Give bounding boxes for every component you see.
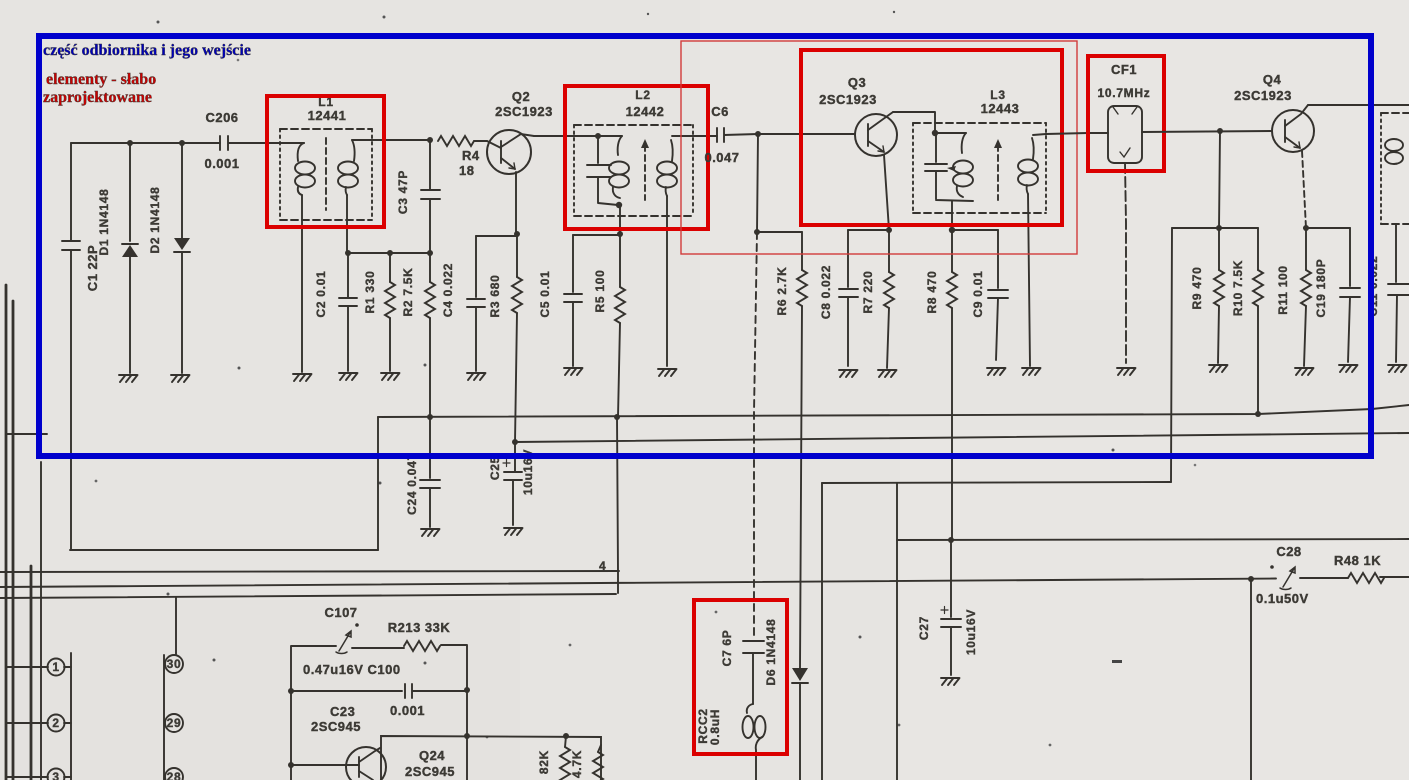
capacitor C3 47P [396,140,440,253]
capacitor C24 0.047 [405,417,440,527]
capacitor C1 22P (series in left branch) [62,143,100,550]
svg-text:C23: C23 [330,704,355,719]
svg-text:0.1u50V: 0.1u50V [1256,591,1309,606]
transformer L3 12443 [913,88,1046,366]
capacitor C6 0.047 (series) [704,104,758,165]
highlight box around L2 [565,86,708,229]
transformer (edge, partial) [1381,113,1409,282]
transistor Q4 2SC1923 [1234,72,1314,228]
svg-text:2SC1923: 2SC1923 [819,92,877,107]
wire: Q4 collector out [1308,104,1409,106]
svg-text:C28: C28 [1276,544,1301,559]
transistor Q23 2SC945 [291,747,455,780]
svg-text:3: 3 [52,770,59,780]
highlight box around L1 [267,96,384,227]
connector pin 1 [7,659,71,676]
svg-text:R2 7.5K: R2 7.5K [401,268,415,317]
svg-text:2SC945: 2SC945 [405,764,455,779]
node: bus A / C24 [427,414,433,420]
node: rail/R82K [563,733,569,739]
node: Q3 emitter rail [886,227,892,233]
svg-text:28: 28 [167,770,182,780]
ground (L1 primary) [293,374,312,381]
svg-text:elementy - słabo: elementy - słabo [46,71,156,88]
svg-text:R3 680: R3 680 [488,275,502,318]
svg-text:część odbiornika i jego wejści: część odbiornika i jego wejście [43,42,251,59]
ground (CF1) [1117,368,1136,375]
ground (C19) [1339,365,1358,372]
node: Q4 emitter rail [1303,225,1309,231]
svg-text:Q2: Q2 [512,89,530,104]
capacitor C25 10u16V (electrolytic) [488,442,535,525]
node: CF1/Q4 junction [1217,128,1223,134]
ground (C4) [467,373,486,380]
connector pin 28 [165,768,183,780]
svg-text:R1 330: R1 330 [363,271,377,314]
ceramic filter CF1 10.7MHz [1098,62,1151,363]
svg-text:D1 1N4148: D1 1N4148 [97,188,111,255]
wire: below-frame vertical [40,462,42,780]
svg-text:4: 4 [599,559,606,573]
svg-text:R213 33K: R213 33K [388,620,451,635]
svg-text:0.8uH: 0.8uH [708,709,722,745]
svg-text:18: 18 [459,163,474,178]
node: rail/C100 [464,733,470,739]
resistor R8 470 (to lower section) [925,230,957,540]
svg-text:R48 1K: R48 1K [1334,553,1381,568]
node: bus A / R5 [614,414,620,420]
svg-text:1: 1 [52,660,59,674]
ground (L3 secondary) [1022,368,1041,375]
capacitor C11 0.022 [1366,255,1409,362]
svg-text:R4: R4 [462,148,480,163]
wire: junction down [1250,579,1252,780]
svg-text:CF1: CF1 [1111,62,1137,77]
resistor R7 220 [861,230,894,368]
ground (R11) [1295,368,1314,375]
wire: R5 riser to bottom [617,417,618,593]
wire: left margin lines [6,285,31,780]
resistor R6 2.7K [775,232,807,668]
resistor R5 100 (to bus) [593,234,625,417]
ground (R9) [1209,365,1228,372]
connector pin 2 [7,715,71,732]
wire: Q2 collector to L2 [534,135,565,137]
wire: dashed feed down to C7 [754,232,757,639]
node: D2 tap [179,140,185,146]
coil RCC2 [696,704,766,780]
svg-text:C7 6P: C7 6P [720,630,734,667]
svg-text:0.001: 0.001 [390,703,425,718]
resistor R10 7.5K (to bus) [1231,228,1263,414]
resistor 4.7K [570,745,603,780]
wire: AGC rail under L1 [347,252,430,254]
wire: C4 rail [476,235,517,237]
capacitor C9 0.01 [971,230,1008,360]
svg-text:0.001: 0.001 [204,156,239,171]
node: L2 internal bottom [616,202,622,208]
svg-text:C24 0.047: C24 0.047 [405,453,419,515]
svg-text:0.047: 0.047 [704,150,739,165]
wire: connector box [71,653,164,780]
wire: stub at left [6,433,47,435]
ground (C9) [987,368,1006,375]
wire: L3 red box to CF1 [1088,132,1108,134]
node: bias rail junction [754,229,760,235]
wire: R11/C19 rail [1304,227,1350,229]
svg-text:C3 47P: C3 47P [396,170,410,214]
svg-text:Q3: Q3 [848,75,866,90]
wire: junction down to bias rail [757,134,758,232]
node: L2 top entry [595,133,601,139]
transformer L1 12441 [267,95,430,372]
wire: rail to R6 [757,231,802,233]
node: L3 bottom rail junction [949,227,955,233]
connector pin 29 [165,714,183,732]
node: R9 rail junction [1216,225,1222,231]
ground (C5) [564,368,583,375]
wire: C107 bias box [291,645,467,780]
ground (R7) [878,370,897,377]
resistor R213 33K [388,620,451,651]
diode D2 1N4148 [148,143,190,373]
ground (C27) [941,678,960,685]
wire: Q3 collector loop to L3 [893,112,935,133]
wire: bus A riser [377,417,379,550]
ground (L2 secondary) [658,369,677,376]
node: L3 primary top [932,130,938,136]
wire: rail left corner down [1171,228,1172,482]
svg-text:R10 7.5K: R10 7.5K [1231,260,1245,316]
node: bus B / C25 [512,439,518,445]
resistor R9 470 [1190,228,1224,363]
node: Q23 base rail [288,762,294,768]
node: L1/R4/C3 junction [427,137,433,143]
node: Q2 emitter / C4 rail [514,231,520,237]
svg-text:2: 2 [52,716,59,730]
svg-text:zaprojektowane: zaprojektowane [43,89,152,106]
svg-text:C4 0.022: C4 0.022 [441,263,455,317]
ground (D1) [119,375,138,382]
wire: bottom rail 3 (stub) [0,594,616,598]
wire: circle-30 riser [175,597,177,654]
svg-text:C107: C107 [324,605,357,620]
svg-text:C6: C6 [711,104,729,119]
capacitor C4 0.022 [441,236,485,371]
svg-text:10u16V: 10u16V [964,609,978,655]
svg-text:2SC945: 2SC945 [311,719,361,734]
frame: blue outline [39,36,1371,456]
svg-text:C206: C206 [205,110,238,125]
wire: horizontal y483 [822,482,1171,483]
highlight box around CF1 [1088,56,1164,171]
svg-text:2SC1923: 2SC1923 [495,104,553,119]
capacitor C7 6P [720,630,764,704]
svg-text:Q24: Q24 [419,748,445,763]
wire: left return loop [70,549,378,551]
capacitor C27 10u16V (electrolytic) [917,540,978,675]
ground (C25) [504,528,523,535]
ground (C11) [1388,365,1407,372]
svg-text:C9 0.01: C9 0.01 [971,271,985,318]
svg-text:12442: 12442 [626,104,665,119]
node: C6 / Q3 base junction [755,131,761,137]
node: D1 tap [127,140,133,146]
wire: vertical x897 [896,483,898,780]
resistor R2 7.5K (to AGC bus) [401,253,435,417]
svg-text:29: 29 [167,716,182,730]
wire: R9/R10 rail [1172,227,1258,229]
thin red box around IF stage [681,41,1077,254]
resistor 82K [537,736,570,780]
capacitor C206 0.001 (series) [204,110,267,171]
svg-text:30: 30 [167,657,182,671]
trimmer capacitor C28 [1256,544,1309,606]
svg-text:C27: C27 [917,616,931,640]
wire: bottom rail 2 with C28/R48 [0,577,1409,587]
capacitor C8 0.022 [819,230,858,366]
wire: rail to C9 [952,229,998,231]
diode D1 1N4148 [97,143,138,373]
ground (C8) [839,370,858,377]
svg-text:10.7MHz: 10.7MHz [1098,86,1151,100]
capacitor C100 0.001 [291,662,467,734]
svg-text:R6 2.7K: R6 2.7K [775,267,789,316]
resistor R4 18 (series) [438,136,487,178]
svg-text:C25: C25 [488,456,502,480]
svg-text:0.47u16V C100: 0.47u16V C100 [303,662,401,677]
wire: C5 rail [573,234,620,236]
svg-text:R7 220: R7 220 [861,271,875,314]
svg-text:82K: 82K [537,750,551,774]
capacitor C19 180P [1314,228,1360,362]
wire: junction down to R9 rail [1219,131,1220,228]
diode D6 1N4148 [764,618,808,780]
svg-text:Q4: Q4 [1263,72,1282,87]
svg-text:C8 0.022: C8 0.022 [819,265,833,319]
node: L2 secondary bottom rail [617,231,623,237]
svg-text:L2: L2 [635,88,650,102]
wire: bottom rail 1 [0,571,619,572]
transistor Q2 2SC1923 [487,89,553,234]
svg-text:2SC1923: 2SC1923 [1234,88,1292,103]
svg-text:C2 0.01: C2 0.01 [314,271,328,318]
svg-text:R5 100: R5 100 [593,270,607,313]
connector pin 30 [165,655,183,673]
svg-text:R11 100: R11 100 [1276,265,1290,315]
svg-text:12441: 12441 [308,108,347,123]
ground (R1) [381,373,400,380]
resistor R1 330 [363,253,395,371]
svg-text:L3: L3 [990,88,1005,102]
svg-text:4.7K: 4.7K [570,750,584,778]
ground (C24) [421,529,440,536]
ground (D2) [171,375,190,382]
transistor Q3 2SC1923 [758,75,897,230]
svg-text:R9 470: R9 470 [1190,267,1204,310]
resistor R48 1K [1334,553,1384,583]
svg-text:12443: 12443 [981,101,1020,116]
svg-text:D2 1N4148: D2 1N4148 [148,186,162,253]
svg-text:D6 1N4148: D6 1N4148 [764,618,778,685]
resistor R3 680 [488,234,522,442]
svg-text:R8 470: R8 470 [925,271,939,314]
transformer L2 12442 [565,88,717,366]
connector pin 3 [7,769,71,780]
ground (C2) [339,373,358,380]
node: C100 left [288,688,294,694]
capacitor C5 0.01 [538,235,582,366]
svg-text:C5 0.01: C5 0.01 [538,271,552,318]
wire: vertical x822 [821,483,823,780]
node: C27 tap [948,537,954,543]
wire: emitter rail to C8 [848,229,889,231]
highlight box around Q3/L3 [801,50,1062,225]
wire: horizontal y540 [897,539,1409,540]
wire: L3 to CF1 [1046,133,1088,134]
wire: main input line [71,142,220,144]
highlight box around C7/RCC2 [694,600,787,754]
svg-text:C19 180P: C19 180P [1314,259,1328,318]
wire: bus B [515,433,1409,442]
capacitor C2 0.01 [314,253,357,371]
resistor R11 100 [1276,228,1311,366]
node: C100 right [464,687,470,693]
node: bus A / R10 [1255,411,1261,417]
wire: CF1 to Q4 [1142,131,1272,132]
trimmer capacitor C107 [324,605,358,654]
node: C28 line junction [1248,576,1254,582]
wire: Q24 rail [381,736,601,780]
wire: bus A (AGC) [378,405,1409,417]
